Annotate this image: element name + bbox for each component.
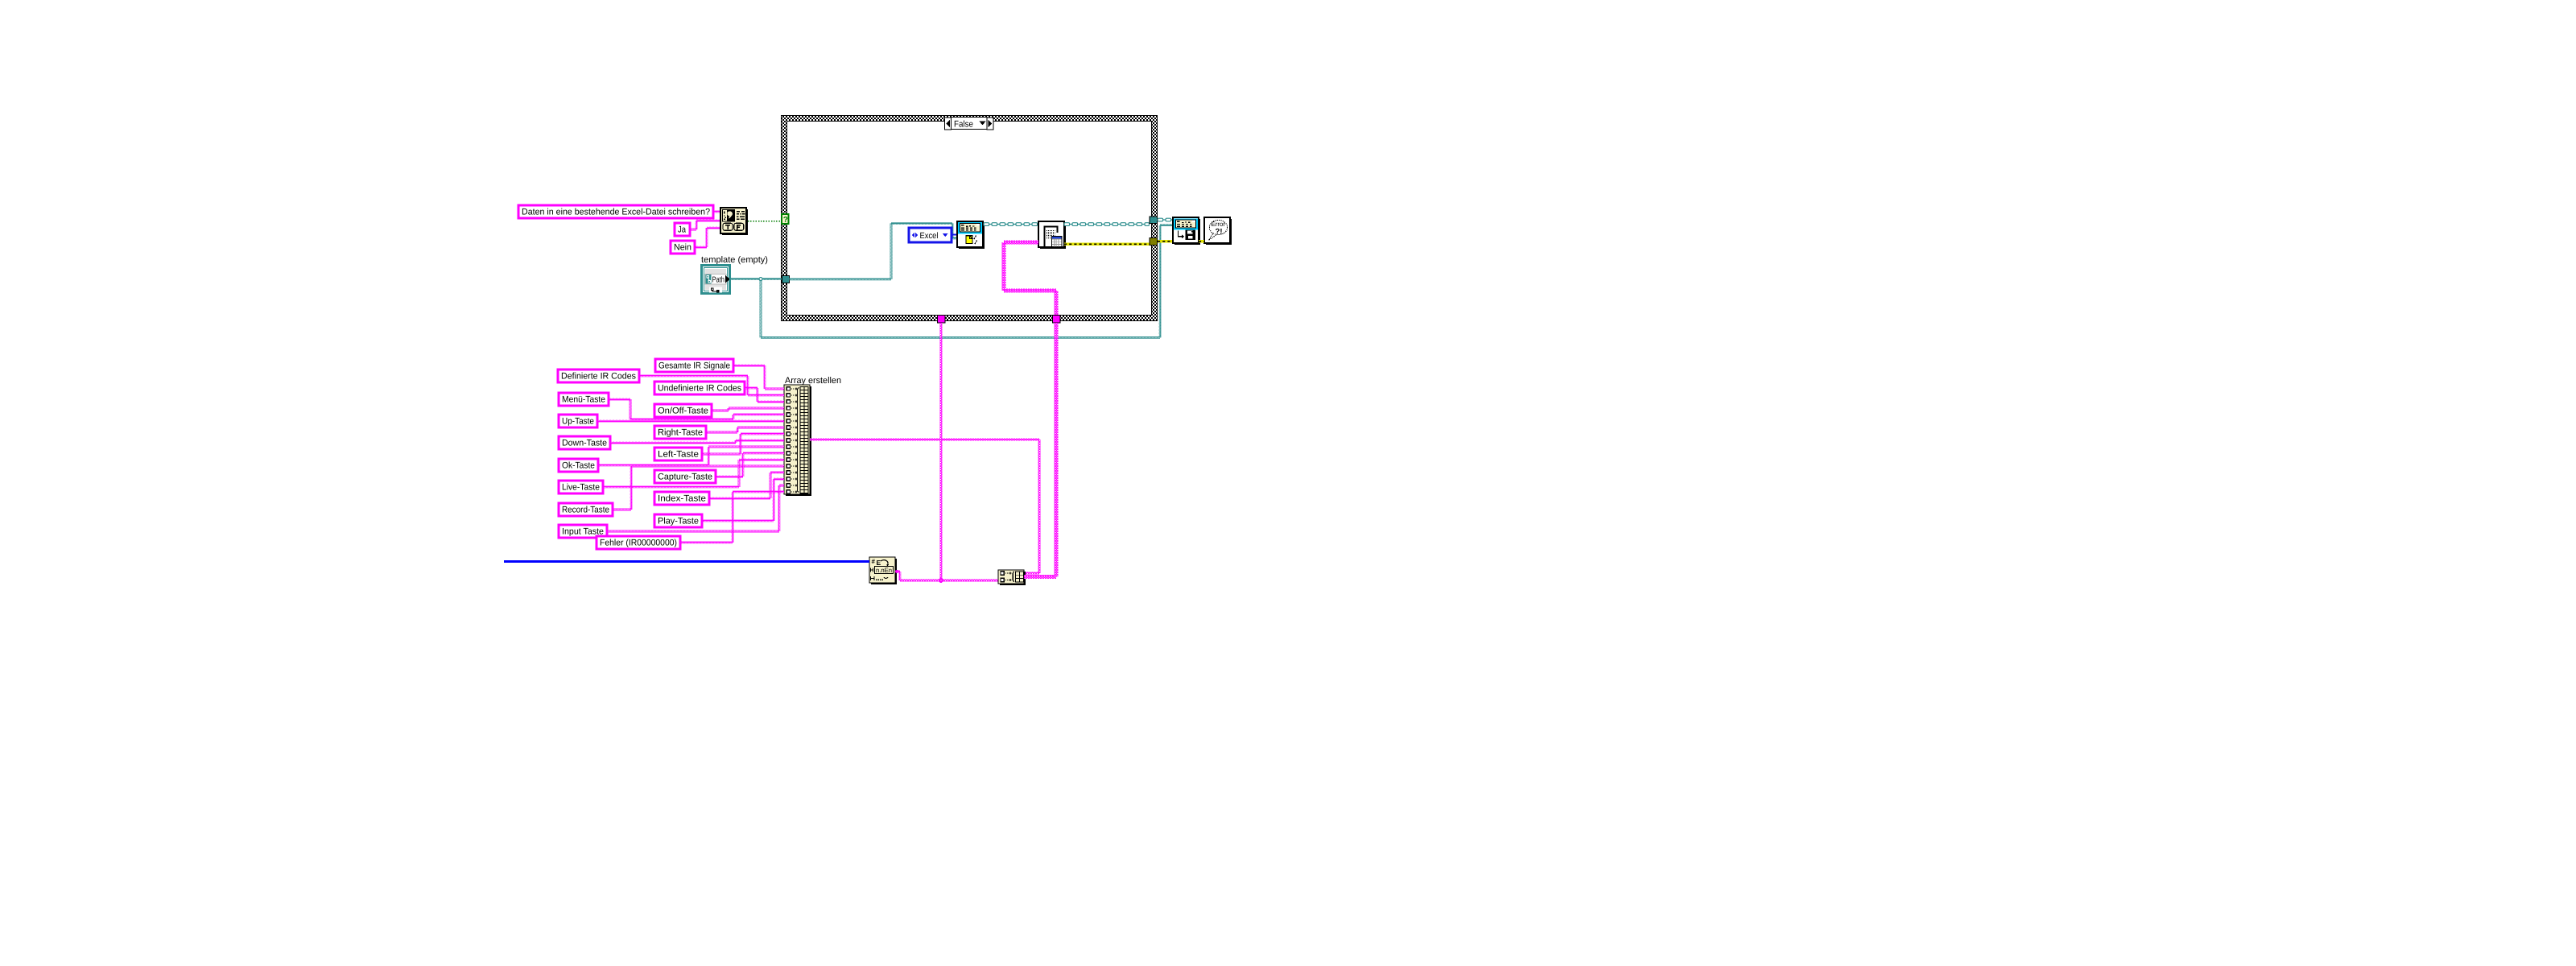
wire Definierte IR Codes to Build Array: [639, 375, 748, 378]
Save Report VI: [1199, 219, 1200, 245]
string constant Record-Taste: [559, 503, 613, 516]
refnum tunnel on right border: [1150, 217, 1158, 224]
enum wire to New Report: [952, 234, 957, 236]
svg-text:Up-Taste: Up-Taste: [562, 417, 594, 427]
string constant Definierte IR Codes: [558, 369, 639, 382]
boolean constant Ja: [675, 223, 690, 236]
svg-text:Capture-Taste: Capture-Taste: [658, 473, 712, 482]
svg-text:Index-Taste: Index-Taste: [658, 494, 706, 504]
string constant Up-Taste: [559, 415, 597, 427]
case selector terminal ?: [782, 214, 789, 224]
svg-text:Record-Taste: Record-Taste: [562, 506, 609, 515]
svg-text:Nein: Nein: [674, 243, 691, 253]
path wire from template to case: [729, 278, 761, 280]
wire Up-Taste to Build Array: [597, 420, 784, 423]
svg-text:?!: ?!: [1216, 228, 1223, 237]
svg-text:Play-Taste: Play-Taste: [658, 517, 699, 526]
string constant Ok-Taste: [559, 459, 598, 472]
wire On/Off-Taste to Build Array: [712, 410, 729, 412]
boolean wire dialog to case selector: [748, 221, 782, 222]
n.nEn output to Build Array 2: [896, 570, 898, 572]
svg-text:On/Off-Taste: On/Off-Taste: [658, 407, 708, 416]
svg-text:Daten in eine bestehende Excel: Daten in eine bestehende Excel-Datei sch…: [522, 208, 710, 217]
wire Record-Taste to Build Array: [613, 509, 631, 511]
string constant Menü-Taste: [559, 393, 609, 406]
svg-text:template (empty): template (empty): [701, 255, 768, 265]
string constant Index-Taste: [654, 492, 709, 505]
svg-text:Live-Taste: Live-Taste: [562, 483, 600, 493]
1D array wire from tunnel down to Build Array 2: [940, 323, 943, 580]
string constant Fehler (IR00000000): [597, 536, 680, 549]
svg-text:Left-Taste: Left-Taste: [658, 450, 699, 460]
svg-text:Array erstellen: Array erstellen: [785, 376, 841, 386]
blue numeric wire: [504, 560, 869, 563]
string constant Play-Taste: [654, 514, 702, 527]
wire Right-Taste to Build Array: [706, 431, 737, 434]
svg-text:E: E: [877, 559, 881, 567]
Build Array 2 output 2D wire to tunnel: [1024, 575, 1056, 579]
wire Fehler (IR00000000) to Build Array: [680, 542, 733, 544]
tunnel (path) on left case border: [782, 276, 790, 283]
string constant Capture-Taste: [654, 470, 716, 483]
enum constant Excel: [909, 228, 952, 242]
string constant Left-Taste: [654, 448, 702, 460]
svg-text:Path: Path: [712, 276, 725, 285]
svg-text:Definierte IR Codes: Definierte IR Codes: [561, 372, 636, 382]
magenta tunnels on bottom border: [938, 316, 946, 324]
svg-text:?: ?: [783, 216, 788, 225]
Number To Engineering String VI: [895, 559, 897, 584]
svg-text:#: #: [872, 558, 876, 565]
string constant Input Taste: [559, 525, 607, 538]
Build Array 2 (2 inputs): [1024, 572, 1026, 585]
wire Capture-Taste to Build Array: [716, 476, 743, 478]
path wire branch down and under case: [760, 280, 762, 338]
wire label to dialog: [713, 211, 720, 213]
string constant: Daten in eine bestehende Excel-Datei schreiben?: [518, 205, 713, 218]
wire Ok-Taste to Build Array: [598, 464, 708, 467]
Build Array output 1D wire: [810, 439, 1039, 441]
wire Undefinierte IR Codes to Build Array: [745, 387, 758, 390]
string constant Gesamte IR Signale: [655, 359, 733, 372]
wire Index-Taste to Build Array: [709, 497, 770, 500]
wire Live-Taste to Build Array: [603, 486, 739, 489]
New Report VI: [983, 223, 985, 249]
wire Ja to dialog: [690, 229, 696, 231]
wire Nein to dialog: [695, 246, 707, 249]
string constant Undefinierte IR Codes: [654, 382, 745, 394]
Append Table to Report VI: [1064, 223, 1066, 249]
svg-text:Ok-Taste: Ok-Taste: [562, 461, 595, 471]
error wire Append to Save: [1064, 243, 1150, 246]
path control template: [700, 264, 731, 295]
wire Left-Taste to Build Array: [702, 453, 741, 456]
refnum wire Append to tunnel: [1064, 223, 1070, 226]
string constant Down-Taste: [559, 436, 610, 449]
case selector label False: [945, 118, 952, 130]
svg-text:Menü-Taste: Menü-Taste: [562, 395, 605, 405]
wire Play-Taste to Build Array: [702, 520, 774, 522]
svg-text:False: False: [954, 120, 973, 130]
string constant On/Off-Taste: [654, 404, 712, 417]
path wire inside case: [789, 279, 891, 281]
string constant Live-Taste: [559, 481, 603, 493]
2D array wire into Append Table: [1055, 291, 1059, 316]
svg-text:Ja: Ja: [678, 225, 687, 235]
svg-text:n.nEn: n.nEn: [876, 567, 892, 574]
error tunnel: [1150, 238, 1158, 246]
wire Down-Taste to Build Array: [610, 442, 736, 444]
Build Array node (17 inputs): [810, 386, 811, 496]
svg-text:Gesamte IR Signale: Gesamte IR Signale: [658, 361, 730, 371]
boolean constant Nein: [671, 241, 695, 254]
svg-text:Fehler (IR00000000): Fehler (IR00000000): [600, 539, 677, 548]
svg-text:Down-Taste: Down-Taste: [562, 439, 607, 448]
error wire Save to Error Handler: [1199, 240, 1204, 242]
svg-text:Undefinierte IR Codes: Undefinierte IR Codes: [658, 384, 741, 394]
wire Menü-Taste to Build Array input 5: [609, 398, 630, 401]
Two Button Dialog VI: [746, 209, 748, 235]
svg-text:Excel: Excel: [920, 231, 939, 241]
string constant Right-Taste: [654, 426, 706, 439]
case structure border: [782, 116, 1158, 321]
wire Input Taste to Build Array: [607, 530, 779, 533]
wire Gesamte IR Signale to Build Array: [733, 365, 765, 367]
report refnum wire (New Report to Append Table): [984, 223, 989, 226]
svg-text:Right-Taste: Right-Taste: [658, 428, 703, 438]
Simple Error Handler VI: [1230, 219, 1232, 245]
